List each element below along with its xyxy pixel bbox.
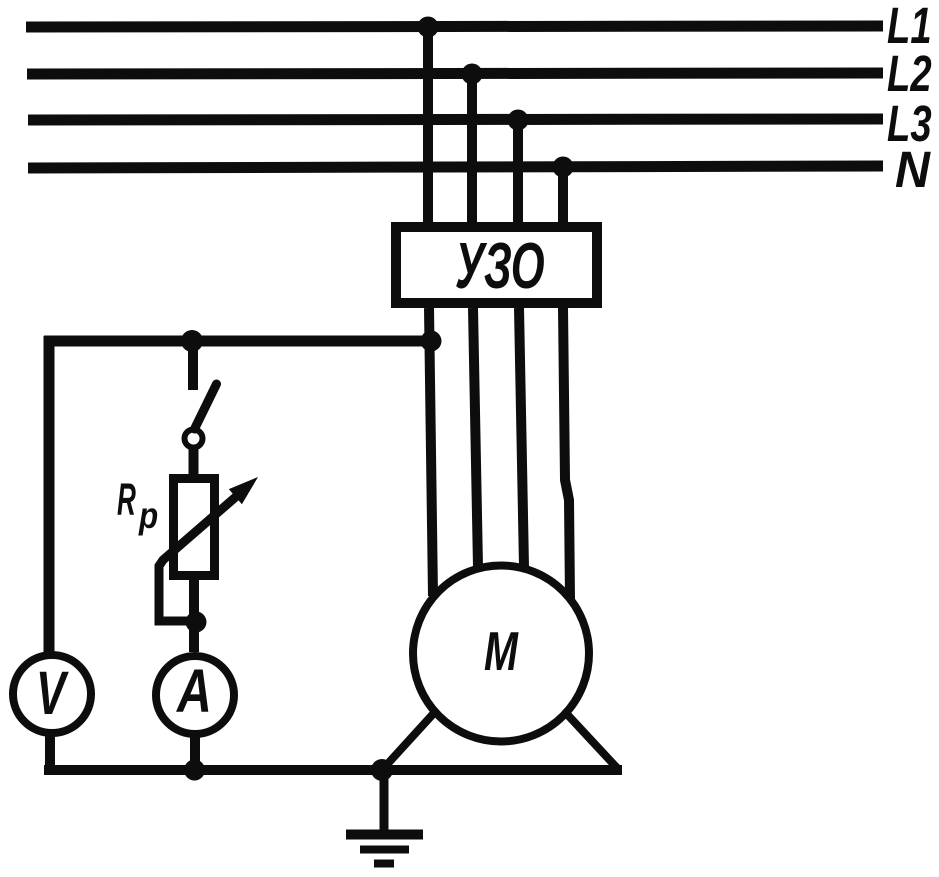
- wire RCD output 1 to motor: [429, 308, 433, 596]
- resistor Rp label R: [117, 475, 136, 525]
- wire ammeter bottom stub: [190, 730, 200, 772]
- resistor Rp label subscript p: [138, 496, 158, 537]
- junction on N: [553, 157, 574, 178]
- svg-text:M: M: [484, 621, 519, 682]
- junction ammeter to bottom wire: [184, 760, 205, 781]
- motor mount left leg: [382, 713, 434, 770]
- ground bar 3: [374, 860, 394, 868]
- motor M letter: [484, 621, 519, 682]
- junction on L1: [418, 17, 439, 38]
- wire tap from N to RCD: [558, 167, 568, 224]
- wire RCD output 3 to motor: [519, 308, 524, 567]
- switch SA pivot contact: [185, 430, 203, 448]
- ground bar 2: [360, 846, 409, 854]
- wire tap from L1 to RCD: [423, 27, 433, 224]
- junction test branch on phase wire: [421, 331, 442, 352]
- wire RCD output 4 to motor: [563, 308, 570, 599]
- resistor Rp body: [174, 479, 215, 576]
- ammeter A circle: [156, 656, 234, 734]
- wire RCD output 2 to motor: [473, 308, 478, 567]
- wire left vertical to voltmeter: [44, 336, 55, 657]
- junction on L2: [462, 64, 483, 85]
- motor M circle: [413, 566, 589, 742]
- motor mount right leg: [565, 712, 618, 769]
- node N label: [895, 141, 931, 198]
- wire test branch horizontal: [44, 336, 434, 347]
- svg-text:A: A: [175, 657, 212, 726]
- voltmeter V letter: [36, 660, 69, 727]
- wire tap from L2 to RCD: [467, 74, 477, 224]
- node L1 label: [887, 0, 932, 54]
- node L3 label: [887, 95, 932, 153]
- junction on L3: [508, 110, 529, 131]
- ammeter A letter: [175, 657, 212, 726]
- svg-text:p: p: [138, 496, 158, 537]
- wire L1 bus: [26, 26, 883, 27]
- junction ground node: [371, 759, 393, 781]
- resistor Rp wiper arrow: [163, 477, 258, 560]
- junction switch top: [181, 330, 203, 352]
- wire switch to resistor: [189, 449, 199, 476]
- svg-text:V: V: [36, 660, 69, 727]
- node L2 label: [887, 45, 932, 103]
- switch SA stub: [188, 346, 198, 390]
- wire rheostat wiper return jog: [159, 560, 196, 621]
- switch SA blade: [195, 384, 217, 429]
- wire voltmeter bottom stub: [45, 730, 55, 775]
- wire L3 bus: [28, 119, 883, 120]
- svg-text:УЗО: УЗО: [455, 229, 545, 302]
- svg-text:N: N: [895, 141, 931, 198]
- RCD value label УЗО: [455, 229, 545, 302]
- voltmeter V circle: [13, 655, 91, 733]
- ground bar 1: [346, 830, 423, 840]
- wire resistor bottom stub: [189, 576, 199, 652]
- svg-text:R: R: [117, 475, 136, 525]
- wire bottom return: [44, 765, 622, 775]
- RCD box УЗО: [396, 227, 597, 303]
- junction wiper and ammeter: [186, 612, 207, 633]
- wire L2 bus: [27, 73, 883, 74]
- wire N bus: [28, 166, 883, 168]
- ground stem: [380, 770, 389, 832]
- wire tap from L3 to RCD: [513, 120, 523, 224]
